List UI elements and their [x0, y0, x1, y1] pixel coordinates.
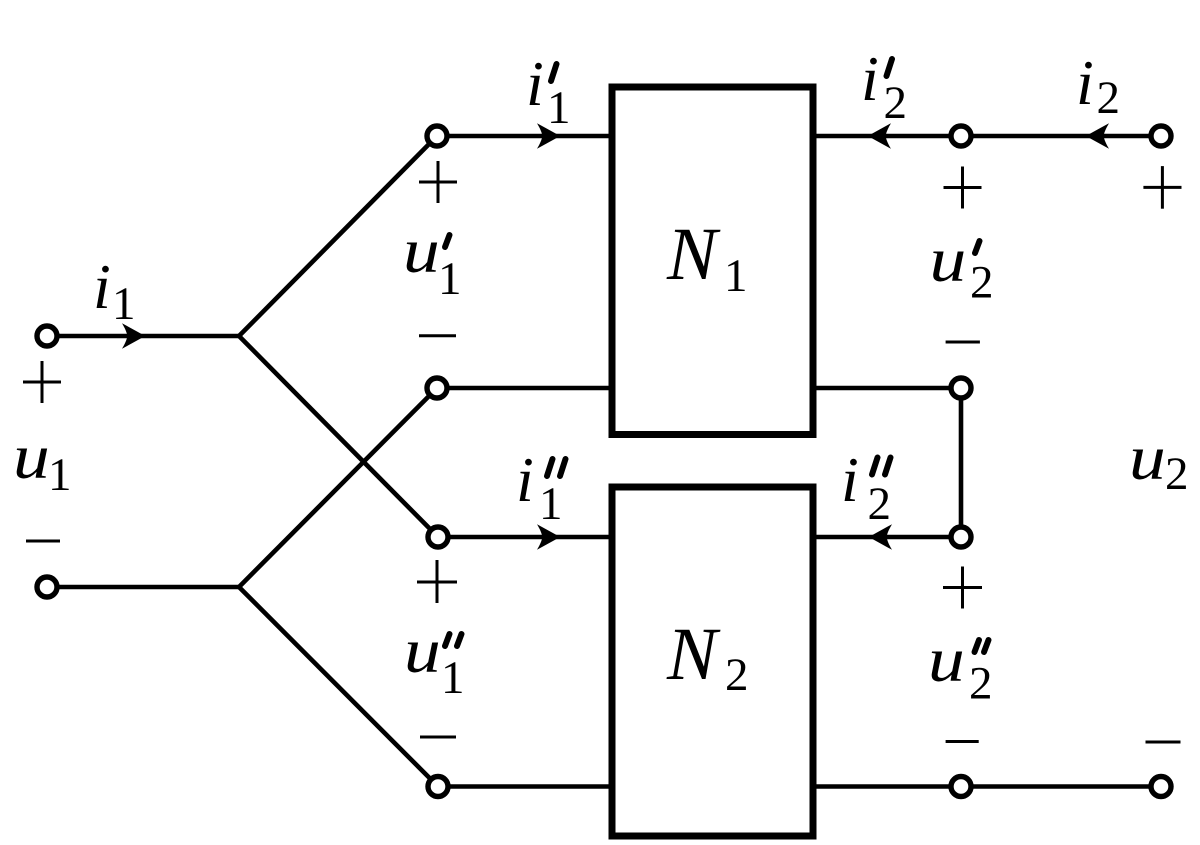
prime of u1' — [445, 235, 450, 247]
plus sign at input top — [23, 361, 61, 403]
wire: diagonal J1 to terminal A — [239, 136, 437, 336]
wire: terminal I to terminal J — [961, 784, 1161, 789]
terminal node E (u2' +) — [951, 126, 971, 146]
minus sign at terminal J column — [1146, 741, 1181, 744]
wire: terminal H to N2 port 2+ — [813, 535, 961, 540]
terminal node D (u1'' -) — [428, 777, 448, 797]
svg-text:1: 1 — [539, 478, 563, 530]
plus sign at terminal C — [417, 560, 457, 603]
wire: vertical link G to H — [959, 388, 964, 537]
svg-text:i: i — [841, 444, 859, 515]
svg-text:u: u — [1129, 422, 1166, 493]
terminal node H (u2'' +) — [951, 527, 971, 547]
wire: terminal A to N1 port 1+ — [437, 134, 612, 139]
minus sign at terminal I column — [946, 740, 979, 743]
primes of u2'' — [975, 640, 980, 652]
wire: diagonal J1 to terminal C — [239, 336, 438, 537]
svg-text:2: 2 — [868, 478, 892, 530]
arrow i1 on left input lead — [122, 323, 144, 349]
svg-text:2: 2 — [725, 649, 749, 701]
wire: N1 port 2+ to terminal E — [813, 134, 961, 139]
wire: diagonal J2 to terminal D — [239, 587, 438, 787]
wire: left top input lead — [47, 334, 239, 339]
prime of i2' — [887, 59, 893, 76]
svg-text:i: i — [1076, 47, 1094, 118]
minus sign at terminal B — [419, 334, 456, 337]
two-port box N1 — [612, 87, 813, 435]
svg-text:N: N — [666, 213, 721, 296]
svg-text:i: i — [93, 251, 111, 322]
terminal node G (u2' -) — [951, 378, 971, 398]
arrow i1' into N1 — [537, 123, 559, 149]
arrow i2 on right lead — [1088, 123, 1110, 149]
wire: terminal E to terminal F — [961, 134, 1161, 139]
svg-text:1: 1 — [547, 82, 571, 134]
plus sign at terminal E — [944, 167, 982, 209]
svg-text:2: 2 — [1165, 448, 1189, 500]
terminal node B (u1' -) — [427, 378, 447, 398]
minus sign at input bottom — [26, 540, 60, 543]
wire: N2 port 2- to terminal I — [813, 784, 961, 789]
svg-text:u: u — [13, 421, 50, 492]
minus sign at terminal D — [420, 736, 456, 739]
svg-text:u: u — [930, 224, 967, 295]
wire: terminal C to N2 port 1+ — [438, 535, 612, 540]
wire: N1 port 2- to terminal G — [813, 386, 961, 391]
terminal node TL1 (input +) — [37, 326, 57, 346]
svg-text:u: u — [928, 624, 965, 695]
arrow i1'' into N2 — [537, 524, 559, 550]
terminal node F (output +) — [1151, 126, 1171, 146]
svg-text:1: 1 — [724, 250, 748, 302]
wire: terminal D to N2 port 1- — [438, 784, 612, 789]
svg-text:1: 1 — [48, 449, 72, 501]
svg-text:2: 2 — [884, 77, 908, 129]
two-port box N2 — [612, 487, 813, 836]
svg-text:1: 1 — [438, 253, 462, 305]
svg-text:i: i — [526, 48, 544, 119]
svg-text:2: 2 — [970, 257, 994, 309]
prime of u2' — [975, 241, 980, 253]
arrow i2' into N1 — [870, 123, 892, 149]
svg-text:u: u — [403, 215, 440, 286]
prime of i1' — [551, 64, 557, 81]
primes of i2'' — [872, 458, 878, 475]
terminal node C (u1'' +) — [428, 527, 448, 547]
wire: diagonal J2 to terminal B — [239, 388, 437, 587]
plus sign at terminal F — [1143, 166, 1181, 209]
arrow i2'' into N2 — [871, 524, 893, 550]
svg-text:1: 1 — [112, 278, 136, 330]
wire: left bottom input lead — [47, 585, 239, 590]
svg-text:2: 2 — [1097, 72, 1121, 124]
terminal node A (u1' +) — [427, 126, 447, 146]
plus sign at terminal A — [419, 161, 457, 203]
svg-text:1: 1 — [441, 652, 465, 704]
primes of u1'' — [445, 634, 450, 646]
svg-text:i: i — [861, 43, 879, 114]
svg-text:u: u — [404, 615, 441, 686]
plus sign at terminal H — [943, 567, 982, 609]
terminal node TL2 (input -) — [37, 577, 57, 597]
terminal node I (u2'' -) — [951, 777, 971, 797]
primes of i1'' — [547, 459, 553, 476]
svg-text:N: N — [666, 613, 721, 696]
terminal node J (output -) — [1151, 777, 1171, 797]
svg-text:i: i — [516, 444, 534, 515]
minus sign at terminal G — [946, 341, 980, 344]
svg-text:2: 2 — [969, 658, 993, 710]
wire: terminal B to N1 port 1- — [437, 386, 612, 391]
